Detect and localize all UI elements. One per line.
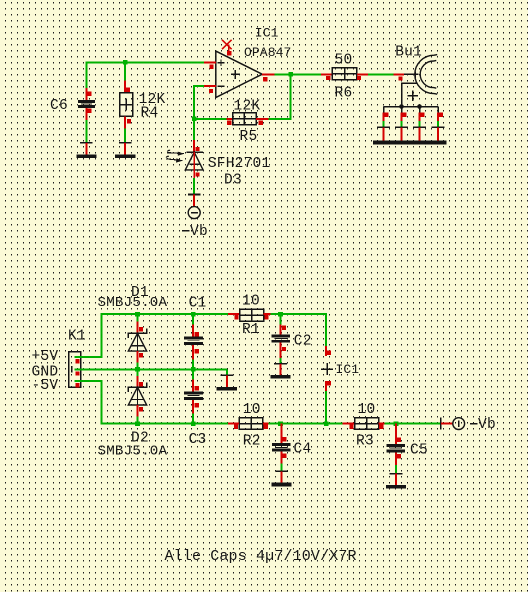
plus sign at +input	[218, 62, 225, 64]
node IC1 V-	[324, 421, 329, 426]
diode D1 SMBJ5.0A	[128, 314, 146, 369]
svg-text:R2: R2	[243, 433, 261, 449]
node D1 top	[135, 312, 140, 317]
resistor R3	[342, 418, 384, 430]
ground (C4)	[272, 471, 292, 486]
svg-text:Alle Caps 4µ7/10V/X7R: Alle Caps 4µ7/10V/X7R	[165, 548, 357, 565]
ground bar (Bu1 shield)	[373, 141, 447, 145]
wire R4 to gnd	[124, 128, 126, 142]
Bu1 shield pin 2	[395, 107, 408, 141]
wire +5V rail	[74, 314, 228, 357]
wire R3 to -Vb	[385, 423, 441, 425]
svg-text:R1: R1	[242, 322, 260, 338]
ground (R4)	[115, 143, 135, 158]
label -Vb (right)	[470, 423, 478, 425]
resistor R4	[120, 81, 133, 129]
node junction at R4 top	[123, 60, 128, 65]
photodiode D3 SFH2701	[166, 140, 203, 178]
wire inverting node	[194, 86, 226, 119]
svg-text:SMBJ5.0A: SMBJ5.0A	[98, 295, 168, 311]
big plus center	[231, 73, 240, 75]
shield bus	[384, 106, 439, 108]
svg-text:C4: C4	[294, 442, 312, 458]
node C5	[394, 421, 399, 426]
svg-text:R6: R6	[335, 86, 353, 102]
node junction feedback	[288, 72, 293, 77]
svg-text:C1: C1	[189, 296, 207, 312]
node D2 bottom	[135, 421, 140, 426]
ground (GND rail)	[217, 369, 237, 390]
ground (C6)	[76, 143, 96, 158]
svg-text:C6: C6	[50, 98, 68, 114]
node C3 bottom	[191, 421, 196, 426]
label -Vb (upper)	[182, 230, 190, 232]
supply -Vb (upper)	[188, 195, 201, 219]
op-amp IC1 OPA847	[216, 51, 262, 97]
svg-text:R4: R4	[141, 106, 159, 122]
shield line	[402, 83, 417, 106]
wire R6 to Bu1	[368, 73, 394, 75]
resistor R2	[228, 418, 269, 430]
node junction inverting	[192, 117, 197, 122]
Bu1 shield pin 3	[413, 107, 426, 141]
node D1/D2 gnd	[135, 367, 140, 372]
label + IC1	[321, 363, 333, 375]
wire to D3	[193, 119, 195, 140]
svg-text:R5: R5	[240, 129, 258, 145]
wire OUT net	[275, 73, 322, 75]
svg-text:-5V: -5V	[32, 378, 59, 394]
wire net IN+ top rail	[86, 62, 203, 100]
light arrows	[166, 150, 184, 162]
capacitor C1	[184, 314, 203, 369]
resistor R6	[321, 68, 368, 80]
supply -Vb (right)	[441, 418, 465, 430]
svg-text:SMBJ5.0A: SMBJ5.0A	[98, 443, 168, 459]
svg-text:C5: C5	[410, 443, 428, 459]
node C2 top	[278, 312, 283, 317]
resistor R5	[226, 113, 268, 125]
svg-text:IC1: IC1	[255, 25, 279, 40]
svg-text:12K: 12K	[234, 98, 261, 114]
capacitor C3	[184, 369, 203, 423]
pin IN+ of IC1	[204, 61, 216, 63]
svg-text:C3: C3	[189, 432, 207, 448]
svg-text:50: 50	[335, 52, 353, 68]
svg-text:Vb: Vb	[190, 224, 208, 240]
capacitor C6	[78, 88, 95, 120]
diode D2 SMBJ5.0A	[128, 369, 146, 423]
capacitor C4	[272, 424, 291, 472]
resistor R1	[228, 309, 271, 321]
pin OUT of IC1	[262, 73, 274, 75]
svg-text:C2: C2	[294, 334, 312, 350]
wire D3 to -Vb	[193, 178, 195, 195]
svg-text:OPA847: OPA847	[244, 45, 291, 60]
wire feedback vertical	[269, 74, 291, 118]
wire GND rail	[74, 368, 226, 370]
svg-text:10: 10	[242, 294, 260, 310]
IC1 power pin V-	[326, 381, 331, 424]
Bu1 shield pin 4	[432, 107, 445, 141]
svg-text:SFH2701: SFH2701	[208, 156, 271, 172]
node C4	[278, 421, 283, 426]
connector K1	[69, 352, 81, 388]
svg-text:IC1: IC1	[336, 362, 360, 377]
capacitor C2	[272, 325, 291, 364]
node C1/C3 gnd	[191, 367, 196, 372]
wire -5V rail	[74, 381, 228, 424]
wire R4 branch	[124, 62, 126, 92]
wire C2 branch	[280, 314, 282, 324]
svg-text:10: 10	[358, 402, 376, 418]
svg-text:R3: R3	[356, 433, 374, 449]
svg-text:K1: K1	[68, 329, 86, 345]
Bu1 shield pin 1	[377, 107, 390, 141]
IC1 power pin V+	[326, 346, 331, 356]
svg-text:D3: D3	[224, 173, 242, 189]
wire R1 to corner and IC1 V+	[271, 314, 327, 346]
pin IN- of IC1	[204, 85, 216, 87]
plus sign	[407, 95, 418, 97]
wire C6 to gnd	[85, 120, 87, 143]
svg-text:Bu1: Bu1	[395, 44, 422, 60]
ground (C5)	[386, 474, 406, 489]
pin V+ of IC1 with X mark	[228, 45, 230, 53]
minus sign at -input	[218, 85, 225, 87]
wire -5V rail right part	[263, 423, 342, 425]
svg-text:Vb: Vb	[478, 417, 496, 433]
capacitor C5	[386, 424, 405, 474]
node C1 top	[191, 312, 196, 317]
svg-text:10: 10	[243, 402, 261, 418]
connector Bu1 (BNC)	[384, 55, 439, 109]
ground (C2)	[270, 364, 290, 379]
svg-text:+5V: +5V	[32, 349, 59, 365]
